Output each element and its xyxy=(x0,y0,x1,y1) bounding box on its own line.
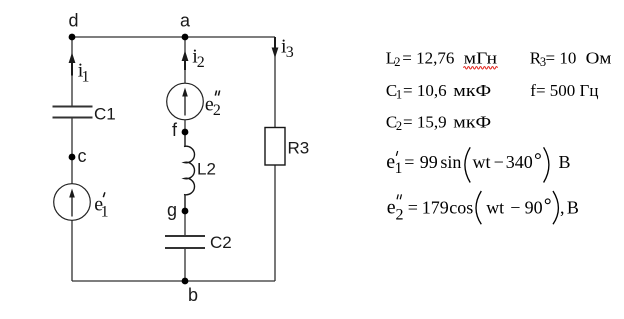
svg-text:мкФ: мкФ xyxy=(453,81,491,100)
capacitor C2 xyxy=(165,236,205,248)
value label C2 = 15,9 mkF xyxy=(386,113,491,134)
svg-text:2: 2 xyxy=(396,207,404,224)
svg-text:1: 1 xyxy=(82,68,90,85)
wire left branch d to C1 xyxy=(71,37,73,106)
svg-text:sin: sin xyxy=(440,152,461,172)
svg-text:=: = xyxy=(408,197,418,217)
label i2 xyxy=(192,45,205,71)
svg-text:wt: wt xyxy=(486,197,504,217)
inductor L2 xyxy=(184,132,195,211)
source e2'' internal arrow xyxy=(182,88,188,116)
label e2'' xyxy=(205,91,221,120)
spellcheck squiggle under mGn xyxy=(464,67,498,70)
svg-text:=: = xyxy=(404,152,414,172)
wire right branch top corner to R3 xyxy=(274,37,276,128)
svg-text:2: 2 xyxy=(396,119,402,133)
label e1' xyxy=(94,192,108,220)
node d xyxy=(69,11,79,41)
svg-text:−: − xyxy=(494,152,504,172)
svg-text:мкФ: мкФ xyxy=(453,113,491,132)
svg-text:179: 179 xyxy=(422,197,449,217)
svg-text:1: 1 xyxy=(101,203,109,220)
wire node g to C2 xyxy=(184,211,186,236)
label i3 xyxy=(281,35,294,61)
svg-text:2: 2 xyxy=(213,102,221,119)
wire a to top-right corner xyxy=(185,36,275,38)
svg-text:e: e xyxy=(387,196,396,218)
wire e1 source to bottom-left corner xyxy=(71,221,73,282)
svg-text:1: 1 xyxy=(395,160,403,177)
wire top d to a xyxy=(72,36,185,38)
svg-text:= 10: = 10 xyxy=(546,49,577,68)
node b xyxy=(182,278,198,305)
source e2'' circle xyxy=(167,83,204,120)
svg-text:f= 500 Гц: f= 500 Гц xyxy=(530,81,598,100)
value label L2 = 12,76 mGn xyxy=(386,49,497,70)
value label C1 = 10,6 mkF xyxy=(386,81,491,102)
resistor R3 xyxy=(265,128,285,166)
svg-text:cos: cos xyxy=(449,197,473,217)
current arrow i3 xyxy=(272,37,279,58)
equation e1' = 99 sin(wt - 340deg) V xyxy=(386,147,570,182)
svg-text:b: b xyxy=(188,285,198,305)
current arrow i1 xyxy=(69,53,76,76)
label L2 xyxy=(197,160,216,179)
svg-text:мГн: мГн xyxy=(464,49,497,68)
source e1' circle xyxy=(54,184,91,221)
wire C1 to e1 source (through node c) xyxy=(71,118,73,184)
wire R3 to bottom-right corner xyxy=(274,165,276,281)
wire e2 source to node f xyxy=(184,120,186,132)
svg-text:f: f xyxy=(172,120,178,140)
wire a down to e2 source xyxy=(184,37,186,83)
svg-text:−: − xyxy=(510,197,520,217)
svg-text:= 12,76: = 12,76 xyxy=(402,49,454,68)
value label R3 = 10 Om xyxy=(530,49,612,70)
svg-text:d: d xyxy=(69,11,79,31)
value label f = 500 Gc xyxy=(530,81,598,100)
source e1' internal arrow xyxy=(69,189,75,217)
svg-text:,: , xyxy=(560,197,565,217)
label C2 xyxy=(210,233,232,252)
svg-text:1: 1 xyxy=(396,88,402,102)
node a xyxy=(180,11,191,41)
svg-text:99: 99 xyxy=(420,152,438,172)
svg-text:= 15,9: = 15,9 xyxy=(403,113,447,132)
capacitor C1 xyxy=(53,107,93,118)
wire C2 to node b xyxy=(184,248,186,281)
wire bottom-left corner to node b xyxy=(72,280,185,282)
svg-text:R3: R3 xyxy=(288,139,310,158)
svg-text:C2: C2 xyxy=(210,233,232,252)
current arrow i2 xyxy=(182,51,189,71)
svg-text:a: a xyxy=(180,11,191,31)
svg-text:g: g xyxy=(167,200,177,220)
label C1 xyxy=(94,105,116,124)
node c xyxy=(69,146,87,166)
svg-text:90: 90 xyxy=(525,197,543,217)
node f xyxy=(172,120,188,140)
node g xyxy=(167,200,188,220)
equation e2'' = 179 cos(wt - 90deg), V xyxy=(387,191,579,224)
svg-text:3: 3 xyxy=(286,44,294,61)
svg-text:Ом: Ом xyxy=(586,49,612,68)
svg-text:2: 2 xyxy=(394,55,400,69)
label R3 xyxy=(288,139,310,158)
svg-text:340: 340 xyxy=(506,152,533,172)
svg-text:2: 2 xyxy=(197,54,205,71)
svg-text:В: В xyxy=(559,152,571,172)
svg-text:L2: L2 xyxy=(197,160,216,179)
wire node b to bottom-right corner xyxy=(185,280,275,282)
svg-text:C1: C1 xyxy=(94,105,116,124)
svg-text:= 10,6: = 10,6 xyxy=(403,81,447,100)
svg-text:c: c xyxy=(78,146,87,166)
label i1 xyxy=(78,59,90,85)
svg-text:wt: wt xyxy=(473,152,491,172)
svg-text:В: В xyxy=(567,197,579,217)
